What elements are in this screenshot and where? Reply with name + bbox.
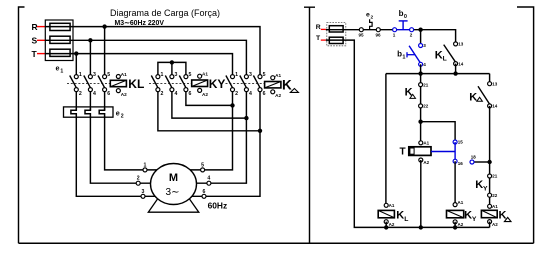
timer coil T bbox=[419, 141, 423, 145]
wire Kdelta A2 to rail bbox=[489, 222, 491, 228]
contact pole terminal 6 bbox=[258, 88, 262, 92]
wire Kdelta14 down bbox=[489, 106, 491, 206]
coil box KY bbox=[192, 80, 208, 87]
contact KY NC 21-22 bbox=[488, 174, 492, 178]
wire timer linkage blue bbox=[431, 151, 455, 153]
wire KL pole 6 to e2 bbox=[104, 92, 106, 111]
svg-text:15: 15 bbox=[458, 140, 464, 145]
overload element e2 bbox=[99, 108, 104, 116]
coil KY control bbox=[453, 203, 457, 207]
coil KY terminal A1 bbox=[198, 74, 202, 78]
contact blade pole 3-4 bbox=[165, 76, 172, 88]
contact pole terminal 3 bbox=[88, 75, 92, 79]
svg-text:6: 6 bbox=[189, 91, 192, 97]
svg-text:21: 21 bbox=[423, 82, 429, 87]
contact pole terminal 4 bbox=[244, 88, 248, 92]
contact pole terminal 1 bbox=[74, 75, 78, 79]
svg-text:14: 14 bbox=[492, 104, 498, 109]
wire KY A2 to rail bbox=[454, 222, 456, 228]
svg-text:T: T bbox=[400, 147, 406, 158]
wire KY pole 2 to motor branch 6 bbox=[158, 92, 260, 131]
svg-text:KL: KL bbox=[128, 77, 144, 91]
coil KL control bbox=[384, 203, 388, 207]
svg-text:A1: A1 bbox=[458, 200, 464, 205]
svg-text:e: e bbox=[116, 109, 120, 118]
svg-text:A2: A2 bbox=[202, 92, 208, 97]
contact pole terminal 1 bbox=[231, 75, 235, 79]
svg-text:4: 4 bbox=[175, 91, 178, 97]
wire T red stub bbox=[37, 53, 46, 55]
svg-text:5: 5 bbox=[201, 162, 204, 168]
wire K-delta pole 6 to motor terminal 6 bbox=[192, 92, 260, 197]
wire e2 to motor terminal 1 bbox=[105, 116, 157, 170]
svg-text:1: 1 bbox=[393, 33, 396, 38]
svg-text:A2: A2 bbox=[458, 222, 464, 227]
svg-text:3: 3 bbox=[175, 72, 178, 78]
coil KY terminal A2 bbox=[198, 88, 202, 92]
svg-text:Y: Y bbox=[472, 216, 477, 223]
node R junction to KL pole 5 bbox=[102, 24, 106, 28]
wire KY pole 6 to motor branch 5 bbox=[186, 92, 233, 106]
svg-text:21: 21 bbox=[492, 174, 498, 179]
motor stand bbox=[148, 199, 199, 212]
node b1-KL14 rail bbox=[418, 71, 422, 75]
svg-text:6: 6 bbox=[263, 91, 266, 97]
svg-text:1: 1 bbox=[235, 72, 238, 78]
wire KY pole 4 to motor branch 4 bbox=[172, 92, 247, 119]
fuse control T bbox=[329, 37, 343, 43]
wire drop R to KL pole 5 bbox=[104, 27, 106, 75]
overload e2 trip symbol bbox=[370, 19, 373, 30]
contact blade pole 5-6 bbox=[179, 76, 186, 88]
coil KL terminal A2 bbox=[116, 89, 120, 93]
pushbutton b0 NC stop bbox=[393, 28, 397, 32]
wire branch to timer contact 15 bbox=[421, 122, 456, 142]
svg-text:6: 6 bbox=[203, 189, 206, 195]
contact pole terminal 2 bbox=[74, 88, 78, 92]
contact blade pole 3-4 bbox=[240, 76, 247, 88]
svg-text:4: 4 bbox=[423, 62, 426, 67]
motor terminal 3 bbox=[141, 194, 145, 198]
svg-text:1: 1 bbox=[60, 68, 63, 74]
contact pole terminal 1 bbox=[156, 75, 160, 79]
svg-text:K: K bbox=[475, 179, 483, 191]
svg-text:M3∼60Hz 220V: M3∼60Hz 220V bbox=[115, 20, 165, 27]
motor terminal 5 bbox=[201, 168, 205, 172]
node junction KY2 Kdelta6 bbox=[258, 129, 262, 133]
node S junction to KL pole 3 bbox=[88, 38, 92, 42]
contact blade pole 5-6 bbox=[253, 76, 260, 88]
svg-text:3: 3 bbox=[423, 43, 426, 48]
wire b0 closed contact bbox=[395, 29, 412, 31]
svg-text:K: K bbox=[282, 78, 292, 93]
svg-text:b: b bbox=[399, 9, 404, 18]
svg-text:2: 2 bbox=[371, 15, 374, 21]
svg-text:60Hz: 60Hz bbox=[208, 200, 228, 210]
svg-text:5: 5 bbox=[263, 72, 266, 78]
svg-text:A1: A1 bbox=[202, 72, 208, 77]
svg-text:96: 96 bbox=[376, 33, 382, 38]
node junction KY6 Kdelta2 bbox=[230, 103, 234, 107]
wire rail to Kdelta NO branch bbox=[489, 74, 491, 84]
node after b0 bbox=[418, 28, 422, 32]
contactor KY dashed linkage bbox=[149, 82, 192, 84]
svg-text:A1: A1 bbox=[492, 204, 498, 209]
timer contact 15-16 bbox=[453, 140, 457, 144]
svg-text:T: T bbox=[32, 49, 38, 59]
wire b0 to KL13 branch corner bbox=[412, 30, 456, 44]
contact blade pole 1-2 bbox=[151, 76, 158, 88]
fuse e1 T bbox=[50, 49, 70, 56]
svg-text:1: 1 bbox=[144, 162, 147, 168]
overload element e2 bbox=[71, 108, 76, 116]
svg-text:K: K bbox=[435, 49, 443, 61]
node T junction to KL pole 1 bbox=[74, 51, 78, 55]
contact pole terminal 6 bbox=[103, 88, 107, 92]
wire S rail to K-delta pole 3 bbox=[45, 40, 246, 74]
svg-text:1: 1 bbox=[161, 72, 164, 78]
fuse box control dashed bbox=[327, 23, 346, 46]
svg-text:K: K bbox=[464, 210, 472, 222]
svg-text:6: 6 bbox=[107, 91, 110, 97]
wire R red stub bbox=[37, 26, 46, 28]
svg-text:A1: A1 bbox=[275, 73, 281, 78]
overload element e2 bbox=[85, 108, 90, 116]
svg-text:22: 22 bbox=[423, 104, 429, 109]
wire KL pole 4 to e2 bbox=[89, 92, 91, 111]
wire drop T to KL pole 1 bbox=[75, 54, 77, 75]
svg-text:1: 1 bbox=[79, 72, 82, 78]
contact pole terminal 6 bbox=[184, 88, 188, 92]
svg-text:e: e bbox=[366, 12, 370, 19]
contact blade pole 1-2 bbox=[70, 76, 77, 88]
contact pole terminal 3 bbox=[244, 75, 248, 79]
wire control T rail down and bottom rail bbox=[326, 40, 490, 227]
svg-text:S: S bbox=[32, 36, 38, 46]
wire S red stub bbox=[37, 39, 46, 41]
wire node to Kdelta NC bbox=[420, 74, 422, 143]
wire K-delta pole 4 to motor terminal 4 bbox=[197, 92, 247, 184]
svg-text:5: 5 bbox=[189, 72, 192, 78]
border frame left page bbox=[19, 7, 25, 243]
svg-text:A1: A1 bbox=[389, 203, 395, 208]
contact pole terminal 5 bbox=[184, 75, 188, 79]
fuse control R bbox=[329, 26, 343, 32]
fuse e1 R bbox=[50, 23, 70, 30]
svg-text:2: 2 bbox=[235, 91, 238, 97]
svg-text:18: 18 bbox=[471, 155, 477, 160]
svg-text:KY: KY bbox=[209, 77, 226, 91]
coil K-delta control bbox=[488, 204, 492, 208]
coil box KL bbox=[110, 80, 126, 86]
node KY A2 rail bbox=[453, 225, 457, 229]
border frame right page bbox=[517, 7, 534, 243]
contact pole terminal 5 bbox=[258, 75, 262, 79]
contact KL 13-14 seal-in bbox=[454, 42, 458, 46]
motor terminal 4 bbox=[207, 181, 211, 185]
svg-text:R: R bbox=[316, 24, 321, 31]
overload relay e2 box bbox=[64, 107, 114, 117]
motor terminal 2 bbox=[136, 181, 140, 185]
overload contact e2 95-96 bbox=[359, 28, 363, 32]
svg-text:16: 16 bbox=[458, 161, 464, 166]
svg-text:13: 13 bbox=[492, 81, 498, 86]
svg-text:A2: A2 bbox=[275, 93, 281, 98]
svg-text:Diagrama de Carga (Força): Diagrama de Carga (Força) bbox=[110, 8, 220, 18]
wire R rail to K-delta pole 5 bbox=[45, 27, 260, 75]
svg-text:14: 14 bbox=[458, 61, 464, 66]
svg-text:M: M bbox=[169, 172, 178, 184]
contact blade pole 5-6 bbox=[98, 76, 105, 88]
fuse box e1 bbox=[45, 20, 73, 61]
svg-text:4: 4 bbox=[207, 176, 210, 182]
svg-text:K: K bbox=[396, 210, 404, 222]
contactor KL dashed linkage bbox=[67, 82, 110, 84]
wire timer A2 to bottom rail bbox=[420, 160, 422, 227]
wire drop S to KL pole 3 bbox=[89, 40, 91, 74]
node KL A2 rail bbox=[384, 225, 388, 229]
svg-text:A2: A2 bbox=[389, 222, 395, 227]
wire KL A2 to rail bbox=[385, 222, 387, 228]
node KY bridge junction bbox=[170, 60, 174, 64]
wire e2 to motor terminal 3 bbox=[76, 116, 155, 196]
contact K-delta NC 21-22 bbox=[419, 83, 423, 87]
wire b1 to rail bbox=[420, 64, 422, 73]
svg-text:L: L bbox=[404, 216, 408, 223]
svg-text:2: 2 bbox=[137, 176, 140, 182]
svg-text:13: 13 bbox=[458, 42, 464, 47]
coil box Kdelta bbox=[265, 82, 281, 88]
svg-text:3∼: 3∼ bbox=[166, 187, 180, 198]
motor terminal 6 bbox=[202, 194, 206, 198]
border frame divider between pages bbox=[304, 7, 315, 243]
svg-text:A2: A2 bbox=[423, 160, 429, 165]
wire rail to KL coil branch bbox=[385, 74, 387, 204]
wire R red stub control bbox=[321, 28, 326, 30]
svg-text:A1: A1 bbox=[423, 140, 429, 145]
wire K-delta pole 2 to motor terminal 5 bbox=[190, 92, 232, 170]
svg-text:L: L bbox=[443, 56, 447, 63]
contact pole terminal 3 bbox=[170, 75, 174, 79]
contact pole terminal 5 bbox=[103, 75, 107, 79]
coil KL terminal A1 bbox=[116, 75, 120, 79]
wire KL pole 2 to e2 bbox=[75, 92, 77, 111]
svg-text:A2: A2 bbox=[492, 222, 498, 227]
timer contact 18 stub bbox=[474, 161, 490, 163]
contact blade pole 1-2 bbox=[226, 76, 233, 88]
contact K-delta NO 13-14 bbox=[488, 82, 492, 86]
node Kdelta22 branch bbox=[418, 120, 422, 124]
svg-text:3: 3 bbox=[93, 72, 96, 78]
coil Kdelta terminal A1 bbox=[271, 76, 275, 80]
wire control R rail bbox=[326, 29, 395, 31]
motor M 3-phase bbox=[151, 164, 197, 205]
svg-text:3: 3 bbox=[142, 189, 145, 195]
svg-text:2: 2 bbox=[161, 91, 164, 97]
svg-text:3: 3 bbox=[249, 72, 252, 78]
wire T red stub control bbox=[321, 39, 326, 41]
node junction KY4 Kdelta4 bbox=[244, 116, 248, 120]
svg-text:A1: A1 bbox=[121, 72, 127, 77]
wire 16 to KY coil bbox=[454, 161, 456, 204]
svg-text:R: R bbox=[32, 22, 38, 32]
svg-text:A2: A2 bbox=[121, 92, 127, 97]
wire KY star-point bridge bbox=[158, 62, 186, 74]
svg-text:22: 22 bbox=[492, 193, 498, 198]
svg-text:1: 1 bbox=[402, 55, 405, 61]
svg-text:4: 4 bbox=[93, 91, 96, 97]
svg-text:95: 95 bbox=[359, 33, 365, 38]
wire rail node row bbox=[386, 73, 490, 75]
svg-text:2: 2 bbox=[121, 114, 124, 120]
motor terminal 1 bbox=[143, 168, 147, 172]
contact blade pole 3-4 bbox=[84, 76, 91, 88]
wire e2 to motor terminal 2 bbox=[90, 116, 150, 183]
fuse e1 S bbox=[50, 36, 70, 43]
svg-text:e: e bbox=[56, 63, 60, 72]
contact pole terminal 2 bbox=[156, 88, 160, 92]
contact pole terminal 4 bbox=[88, 88, 92, 92]
border frame bottom bbox=[19, 242, 534, 244]
svg-text:b: b bbox=[397, 50, 402, 59]
svg-text:2: 2 bbox=[79, 91, 82, 97]
svg-text:5: 5 bbox=[107, 72, 110, 78]
pushbutton b1 NO start bbox=[419, 44, 423, 48]
svg-text:2: 2 bbox=[410, 33, 413, 38]
contactor K-delta dashed linkage bbox=[226, 82, 265, 84]
node KL14 rail bbox=[453, 71, 457, 75]
wire node to b1 bbox=[420, 30, 422, 46]
svg-text:0: 0 bbox=[404, 14, 407, 20]
contact pole terminal 4 bbox=[170, 88, 174, 92]
svg-text:4: 4 bbox=[249, 91, 252, 97]
node timer A2 rail bbox=[419, 225, 423, 229]
node timer 18 junction bbox=[487, 160, 491, 164]
wire KL14 to rail bbox=[455, 64, 457, 74]
contact pole terminal 2 bbox=[231, 88, 235, 92]
svg-text:Y: Y bbox=[483, 185, 488, 192]
coil Kdelta terminal A2 bbox=[271, 90, 275, 94]
wire T rail to K-delta pole 1 bbox=[45, 54, 232, 75]
